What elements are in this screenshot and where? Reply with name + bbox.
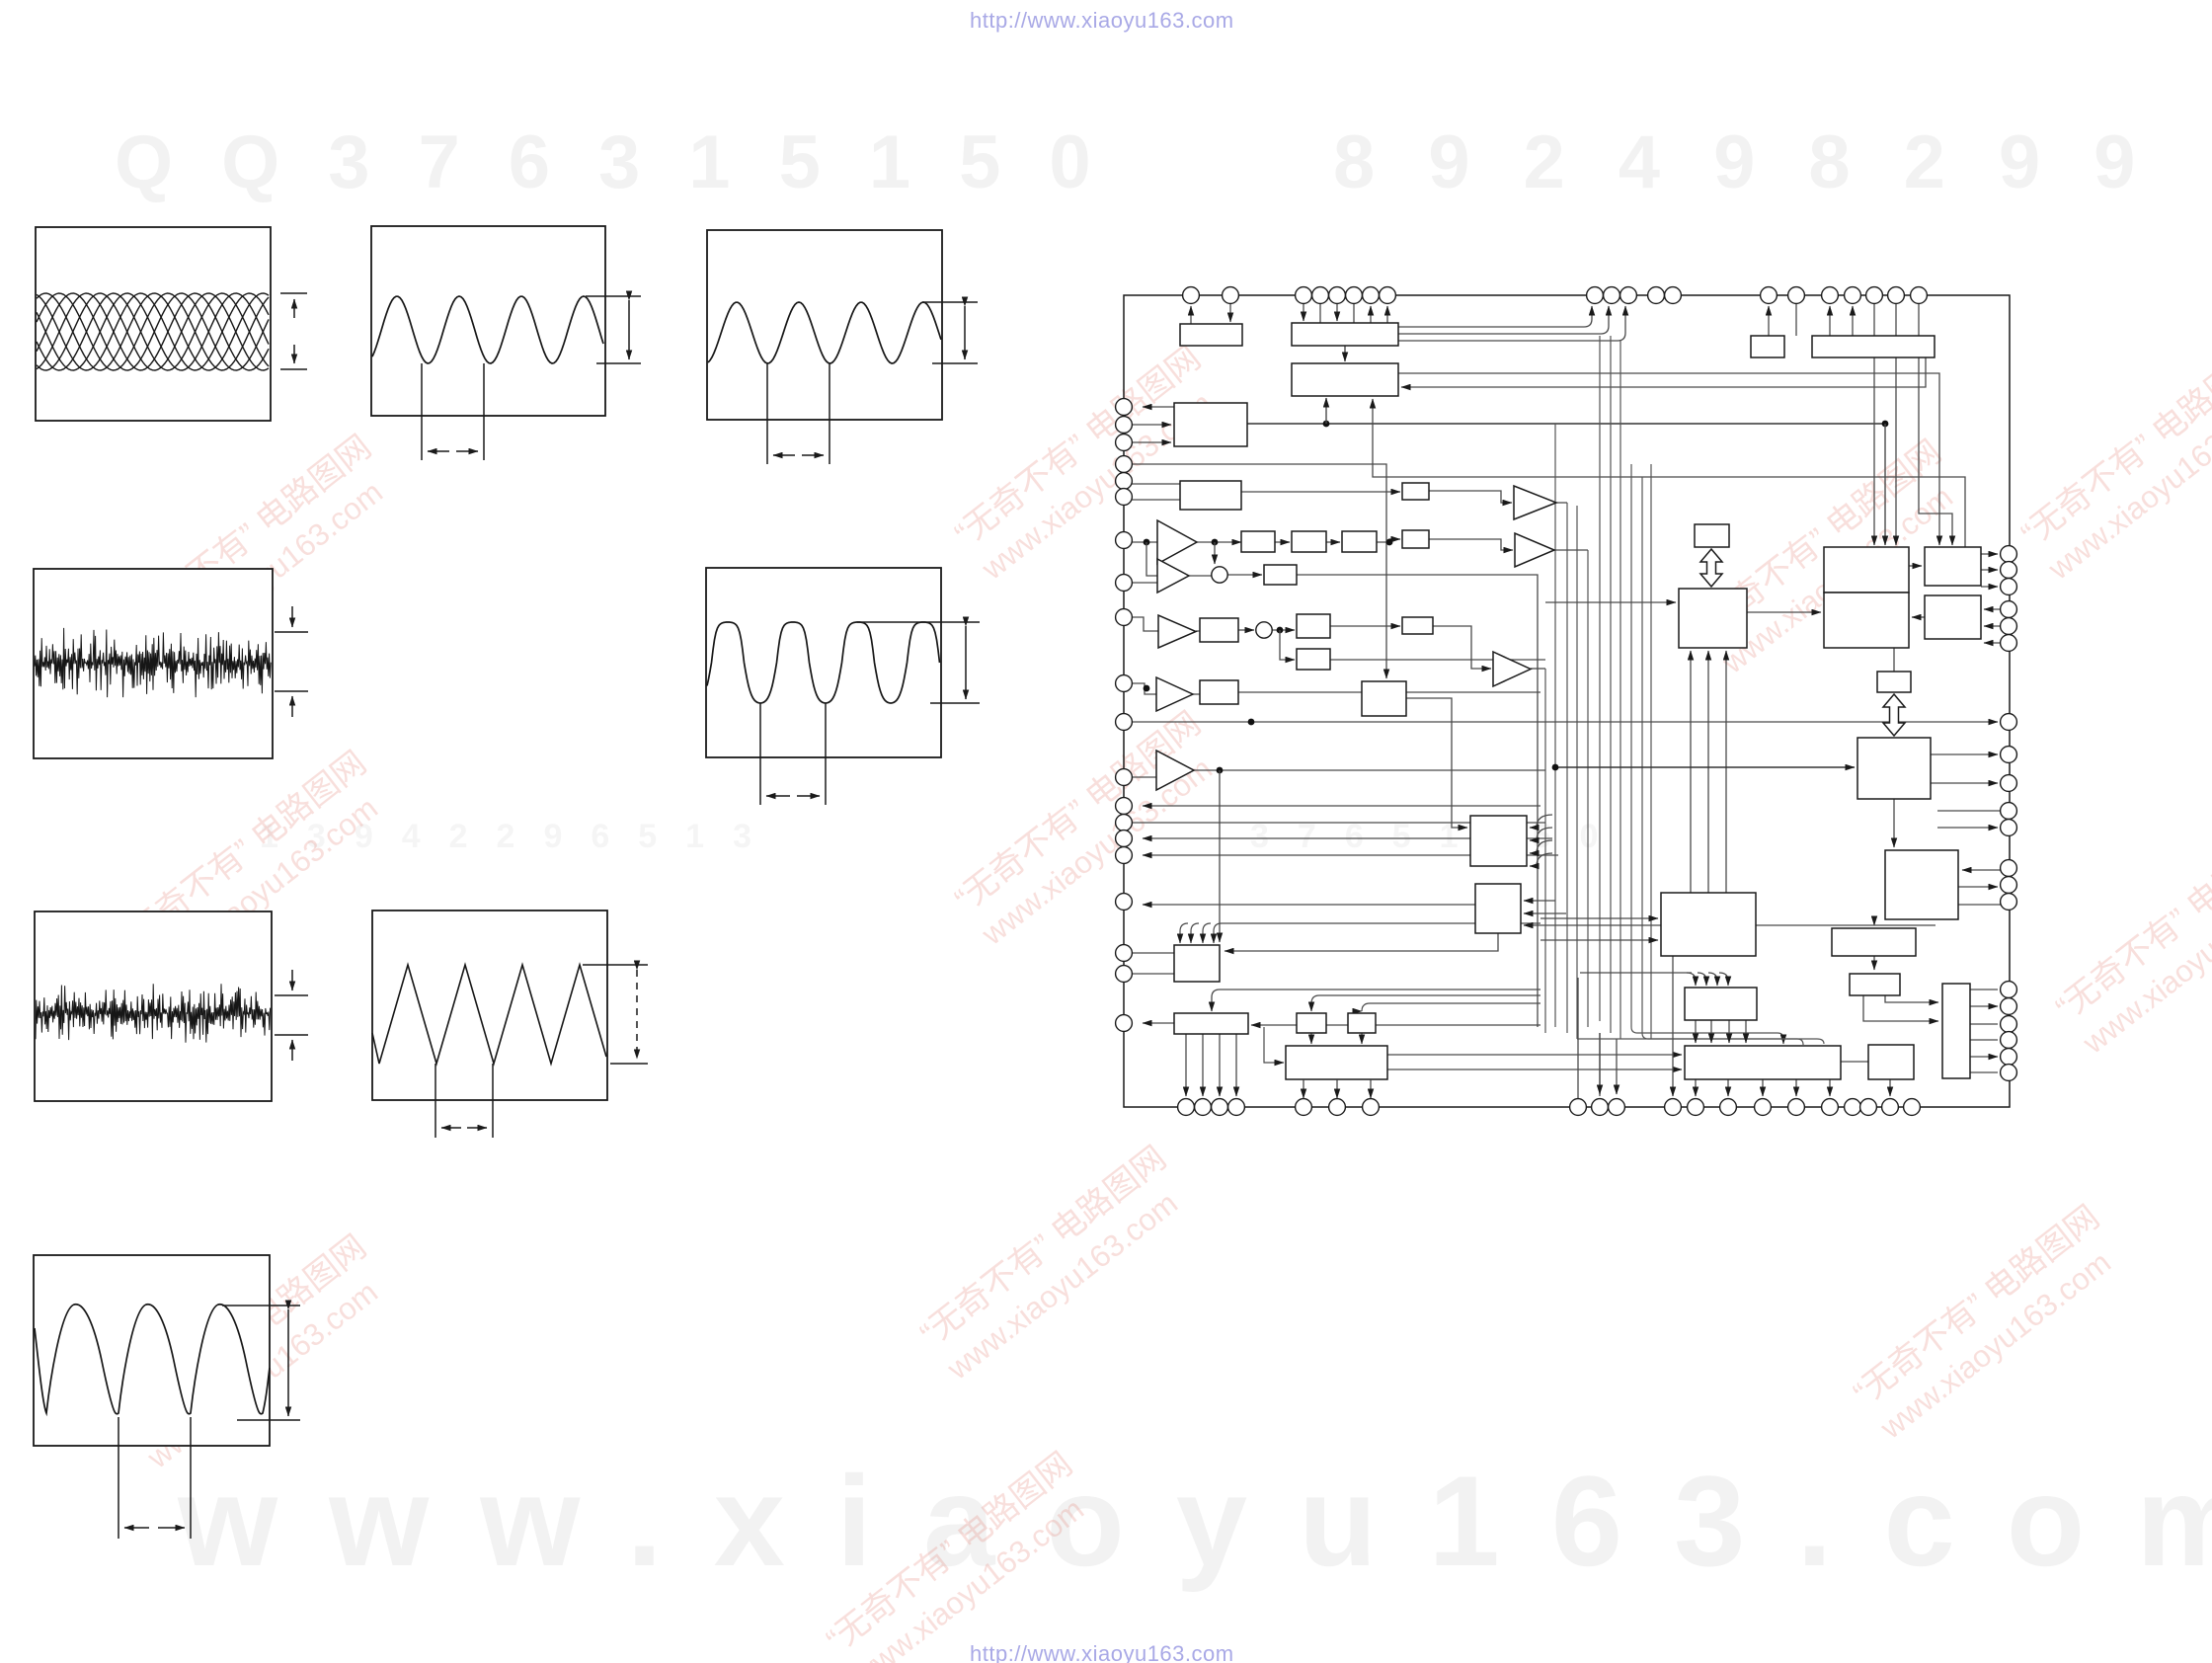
pin B9 bbox=[1592, 1099, 1609, 1116]
wire: WB double arrows to bottom pins bbox=[1303, 1080, 1304, 1098]
pin B4 bbox=[1228, 1099, 1245, 1116]
wire: amp trR1 output to bus bbox=[1556, 502, 1567, 504]
wire: u2 to amp trR2 bbox=[1429, 539, 1513, 550]
faint watermark digits row top-right bbox=[1333, 119, 2188, 205]
pin L12 bbox=[1116, 769, 1133, 786]
block b4 bbox=[1264, 565, 1297, 585]
wire: pin 625 to amp tri5 bbox=[1132, 617, 1158, 631]
pin B11 bbox=[1665, 1099, 1682, 1116]
block u4 bbox=[1695, 524, 1729, 547]
junction bbox=[1144, 539, 1150, 546]
wire: bus into M5a bbox=[1540, 917, 1658, 919]
amp tri4 bbox=[1157, 559, 1189, 593]
wire: BL2 right input bbox=[1251, 1024, 1540, 1026]
wire: EQ chain s2-s3 bbox=[1326, 541, 1340, 543]
summing node c2 bbox=[1256, 622, 1272, 638]
block H (PWM) bbox=[1475, 884, 1521, 933]
wire: vertical bus line bbox=[1599, 336, 1601, 1021]
wire: b7 output to bus bbox=[1330, 659, 1545, 661]
W2 amplitude dimension bbox=[586, 296, 641, 363]
pin L18 bbox=[1116, 945, 1133, 962]
wire: WB to LB links bbox=[1387, 1054, 1682, 1056]
wire: u3 to amp trR3 bbox=[1433, 626, 1491, 669]
wire: lines into H right edge bbox=[1524, 900, 1555, 902]
pin R2 bbox=[2001, 562, 2017, 579]
block M4a bbox=[1832, 928, 1916, 956]
wire: amp tri7 output bbox=[1194, 769, 1545, 771]
wire: vertical bus line bbox=[1587, 550, 1589, 1027]
wire: lines to pins 821/838 bbox=[1937, 810, 2001, 812]
wire: H bottom to BL1 right edge bbox=[1224, 933, 1498, 951]
W5 amplitude dimension bbox=[857, 622, 980, 703]
pin L14 bbox=[1116, 815, 1133, 831]
block M5a (timing gen) bbox=[1661, 893, 1756, 956]
block u5 bbox=[1877, 672, 1911, 692]
wire: b9 down to pin bbox=[1889, 1079, 1891, 1096]
wire: pin line into M3 bbox=[1962, 869, 2001, 871]
amp trR1 bbox=[1514, 486, 1556, 519]
wire: vertical bus line bbox=[1576, 506, 1578, 1039]
IC outer boundary bbox=[1124, 295, 2010, 1107]
amp tri1 bbox=[1157, 520, 1197, 564]
W7 amplitude dimension (dashed) bbox=[583, 965, 648, 1064]
wire: pin 692 to amp tri6 bbox=[1132, 683, 1156, 694]
wire: tb1 up to pin bbox=[1768, 306, 1770, 357]
wire: M3 down to M4a bbox=[1873, 919, 1875, 925]
pin R7 bbox=[2001, 714, 2017, 731]
block m3 (delay) bbox=[1362, 681, 1406, 716]
amp tri5 bbox=[1158, 615, 1196, 648]
wire: b8 output bbox=[1238, 691, 1540, 693]
wire: line y483 up into C bbox=[1373, 399, 1965, 547]
W3 amplitude dimension bbox=[922, 302, 978, 363]
W4 noise band bbox=[35, 628, 271, 697]
block bl3 bbox=[1297, 1013, 1326, 1033]
wire: B down into C bbox=[1344, 346, 1346, 361]
wire: pin 731 long line bbox=[1132, 721, 1998, 723]
pin L10 bbox=[1116, 675, 1133, 692]
wire: lines into left pins group bbox=[1143, 805, 1540, 807]
block tb2 (system control) bbox=[1812, 336, 1935, 357]
junction bbox=[1212, 539, 1219, 546]
pin R17 bbox=[2001, 1016, 2017, 1033]
summing node c1 bbox=[1212, 567, 1227, 583]
wire: m3 to G bbox=[1406, 698, 1467, 828]
pin R16 bbox=[2001, 998, 2017, 1015]
wire: pin 590 to amp input bbox=[1132, 582, 1157, 584]
junction bbox=[1386, 539, 1393, 546]
wire: vertical bus line bbox=[1544, 669, 1546, 1033]
wire: b4 output to bus bbox=[1297, 575, 1538, 1027]
W2 period dimension bbox=[422, 363, 484, 460]
wire: vertical bus line bbox=[1566, 503, 1568, 1033]
block u2 bbox=[1402, 530, 1429, 548]
wire: pin into block E lower bbox=[1132, 499, 1180, 501]
W7 period dimension bbox=[435, 1064, 493, 1138]
wire: pin to amp tri1 bbox=[1132, 541, 1157, 543]
W8 scalloped wave bbox=[35, 1305, 270, 1414]
wire: M5a bottom to pin 1694 bbox=[1672, 956, 1674, 1096]
wire: T2 down to u5 bbox=[1893, 648, 1895, 672]
W6 amplitude dimension bbox=[275, 970, 308, 1061]
pin L19 bbox=[1116, 966, 1133, 983]
pin T3 bbox=[1296, 287, 1312, 304]
pin T10 bbox=[1604, 287, 1620, 304]
pin B17 bbox=[1845, 1099, 1861, 1116]
pin T1 bbox=[1183, 287, 1200, 304]
wire: amp trR2 output to bus bbox=[1554, 549, 1588, 551]
pin B6 bbox=[1329, 1099, 1346, 1116]
pin L3 bbox=[1116, 435, 1133, 451]
scope panel W5 frame bbox=[706, 568, 941, 757]
pin T9 bbox=[1587, 287, 1604, 304]
pin L13 bbox=[1116, 798, 1133, 815]
block TN (I/O) bbox=[1942, 984, 1970, 1078]
pin R10 bbox=[2001, 803, 2017, 820]
block M3 (servo) bbox=[1885, 850, 1958, 919]
pin R1 bbox=[2001, 546, 2017, 563]
pin B8 bbox=[1570, 1099, 1587, 1116]
wire: M4a down to M4 bbox=[1873, 956, 1875, 970]
pin R18 bbox=[2001, 1032, 2017, 1049]
wire: E to u1 bbox=[1241, 491, 1400, 493]
block s3 (filter) bbox=[1342, 531, 1377, 552]
pin L4 bbox=[1116, 456, 1133, 473]
wire: left input pins into block D bbox=[1143, 406, 1174, 408]
pin R4 bbox=[2001, 601, 2017, 618]
wire: branch down into summing node c1 bbox=[1214, 542, 1216, 564]
pin T11 bbox=[1620, 287, 1637, 304]
wire: s3 to u2 bbox=[1377, 539, 1400, 542]
pin R5 bbox=[2001, 618, 2017, 635]
wire: vertical bus line bbox=[1554, 424, 1556, 1027]
wire: BL2 outputs to bottom pins bbox=[1185, 1034, 1187, 1096]
pin B13 bbox=[1720, 1099, 1737, 1116]
wire: vertical bus line bbox=[1619, 341, 1621, 1039]
wire: pin 1819 down bbox=[1795, 303, 1797, 336]
W8 amplitude dimension bbox=[222, 1306, 300, 1420]
wire: b6 to u3 bbox=[1330, 625, 1400, 627]
block bl4 bbox=[1348, 1013, 1376, 1033]
block s1 (AGC) bbox=[1241, 531, 1275, 552]
wire: bus into M1 bbox=[1545, 601, 1676, 603]
wire: A up to pin bbox=[1190, 306, 1192, 324]
watermark url bottom bbox=[970, 1641, 1234, 1663]
wire: EQ chain s1-s2 bbox=[1275, 541, 1290, 543]
pin R3 bbox=[2001, 579, 2017, 595]
wire: vertical bus line bbox=[1650, 464, 1652, 1039]
pin R12 bbox=[2001, 860, 2017, 877]
W3 sine wave bbox=[708, 302, 941, 363]
wire: R2 to T2 bbox=[1912, 616, 1925, 618]
wire: M3 outputs to pins bbox=[1958, 886, 1998, 888]
wire: M4 outputs to TN bbox=[1863, 995, 1938, 1021]
W1 amplitude dimension ticks and arrows bbox=[280, 293, 307, 369]
scope panel W7 frame bbox=[372, 911, 607, 1100]
pin L8 bbox=[1116, 575, 1133, 592]
wire: bl3 into WB bbox=[1310, 1033, 1312, 1044]
scope panel W1 frame bbox=[36, 227, 271, 421]
wire: bus bends into long box LB bbox=[1631, 1027, 1783, 1044]
watermark url top bbox=[970, 8, 1234, 34]
wire: feedback line into C bbox=[1401, 357, 1926, 387]
pin T17 bbox=[1845, 287, 1861, 304]
scope panel W4 frame bbox=[34, 569, 273, 758]
amp trR2 bbox=[1515, 533, 1554, 567]
wire: amp tri6 to b8 bbox=[1193, 693, 1200, 695]
block u3 bbox=[1402, 617, 1433, 634]
pin B7 bbox=[1363, 1099, 1380, 1116]
pin T13 bbox=[1665, 287, 1682, 304]
scope panel W8 frame bbox=[34, 1255, 270, 1446]
pin L20 bbox=[1116, 1015, 1133, 1032]
wire: vertical bus line bbox=[1630, 464, 1632, 1027]
pin B3 bbox=[1212, 1099, 1228, 1116]
wire: bus lines down into bl3 bl4 bbox=[1311, 995, 1540, 1011]
interface double arrow u4-M1 bbox=[1700, 549, 1722, 587]
wire: pins into R2 bbox=[1984, 608, 2001, 610]
pin B16 bbox=[1822, 1099, 1839, 1116]
block WB (audio DAC) bbox=[1286, 1046, 1387, 1079]
block B (register) bbox=[1292, 323, 1398, 346]
pin T15 bbox=[1788, 287, 1805, 304]
block E (bias) bbox=[1180, 481, 1241, 510]
wire: LB outputs to bottom pins bbox=[1695, 1079, 1697, 1096]
block C (decoder) bbox=[1292, 363, 1398, 396]
block BL1 bbox=[1174, 945, 1220, 982]
junction bbox=[1144, 685, 1150, 692]
block b8 bbox=[1200, 680, 1238, 704]
wire: amp trR3 output to bus bbox=[1531, 668, 1545, 670]
block b7 bbox=[1297, 649, 1330, 670]
wire: C right output to R1 via right column bbox=[1398, 373, 1939, 545]
pin B14 bbox=[1755, 1099, 1772, 1116]
wire: M2 outputs to pins bbox=[1931, 753, 1998, 755]
junction bbox=[1552, 764, 1559, 771]
pin L17 bbox=[1116, 894, 1133, 911]
wire: branch down to b7 bbox=[1280, 630, 1295, 660]
block b5 bbox=[1200, 618, 1238, 642]
pin R11 bbox=[2001, 820, 2017, 836]
pin B1 bbox=[1178, 1099, 1195, 1116]
pin L11 bbox=[1116, 714, 1133, 731]
wire: M1 bottom feeds bbox=[1690, 651, 1692, 893]
wire: verticals down into T1 bbox=[1873, 357, 1875, 545]
W8 period dimension bbox=[118, 1417, 191, 1539]
pin R14 bbox=[2001, 894, 2017, 911]
giant faint watermark bottom bbox=[178, 1447, 2212, 1595]
W5 period dimension bbox=[760, 703, 826, 805]
wire: pin to delay line bbox=[1132, 464, 1386, 678]
block LB (port) bbox=[1685, 1046, 1841, 1079]
pin L5 bbox=[1116, 473, 1133, 490]
wire: b5 to summing node c2 bbox=[1238, 629, 1254, 631]
block R2 (input buffer) bbox=[1925, 595, 1981, 639]
pin L16 bbox=[1116, 847, 1133, 864]
faint watermark digits row middle bbox=[260, 818, 780, 856]
pin R15 bbox=[2001, 982, 2017, 998]
junction bbox=[1277, 627, 1284, 634]
red diagonal watermarks bbox=[118, 427, 406, 677]
pin B18 bbox=[1860, 1099, 1877, 1116]
block b9 bbox=[1868, 1045, 1914, 1079]
pin T6 bbox=[1346, 287, 1363, 304]
wire: bl4 into WB bbox=[1361, 1033, 1363, 1044]
W2 sine wave bbox=[372, 296, 603, 363]
scope panel W2 frame bbox=[371, 226, 605, 416]
junction bbox=[1248, 719, 1255, 726]
wire: curl feed line into M5b bbox=[1580, 972, 1692, 974]
pin L2 bbox=[1116, 417, 1133, 434]
wire: R1 outputs to pins bbox=[1981, 553, 1998, 555]
junction bbox=[1882, 421, 1889, 428]
pin T2 bbox=[1223, 287, 1239, 304]
amp tri6 bbox=[1156, 677, 1193, 711]
wire: TN outputs to pins bbox=[1970, 989, 1998, 990]
wire: pins down through tb2 bbox=[1873, 303, 1875, 336]
pin B2 bbox=[1195, 1099, 1212, 1116]
wire: B output lines curving to top pins bbox=[1398, 306, 1592, 327]
wire: pin 787 to amp tri7 bbox=[1132, 776, 1156, 778]
wire: M1 to T2 bbox=[1747, 611, 1821, 613]
scope panel W3 frame bbox=[707, 230, 942, 420]
wire: c1 to b4 bbox=[1227, 574, 1262, 576]
wire: main line into M2 bbox=[1555, 766, 1855, 768]
wire: LB to b9 bbox=[1841, 1061, 1868, 1063]
junction bbox=[1323, 421, 1330, 428]
pin T19 bbox=[1888, 287, 1905, 304]
W6 noise band bbox=[36, 984, 271, 1042]
block M1 (RAM) bbox=[1679, 589, 1747, 648]
pin R9 bbox=[2001, 775, 2017, 792]
wire: pin into block E bbox=[1132, 483, 1180, 485]
pin B15 bbox=[1788, 1099, 1805, 1116]
pin R6 bbox=[2001, 635, 2017, 652]
pin T14 bbox=[1761, 287, 1777, 304]
block G (servo DSP) bbox=[1470, 816, 1527, 866]
wire: tb2 up to pins bbox=[1829, 306, 1831, 336]
pin B20 bbox=[1904, 1099, 1921, 1116]
wire: c2 to b6 bbox=[1272, 629, 1295, 631]
pin R20 bbox=[2001, 1065, 2017, 1081]
wire: top pin cluster into B bbox=[1303, 303, 1304, 321]
wire: WB left input bbox=[1264, 1027, 1284, 1063]
wire: branch down into block T1 bbox=[1884, 424, 1886, 545]
block T1 (digital filter) bbox=[1824, 547, 1909, 593]
W1 multi-phase sine bundle bbox=[37, 293, 269, 370]
W7 triangle wave bbox=[372, 965, 606, 1064]
pin T20 bbox=[1911, 287, 1928, 304]
block D (RF amp) bbox=[1174, 403, 1247, 446]
block M5b bbox=[1685, 988, 1757, 1020]
interface double arrow u5-M2 bbox=[1883, 694, 1905, 736]
wire: T1 to R1 bbox=[1909, 565, 1922, 567]
wire: BL2 out to pin 1036 bbox=[1143, 1022, 1174, 1024]
pin B12 bbox=[1688, 1099, 1704, 1116]
pin L15 bbox=[1116, 831, 1133, 847]
wire: u1 to amp trR1 bbox=[1429, 491, 1512, 503]
wire: pin 965 into BL1 bbox=[1132, 952, 1174, 954]
W4 amplitude dimension bbox=[275, 606, 308, 717]
pin T4 bbox=[1312, 287, 1329, 304]
wire: M5b outputs into LB bbox=[1695, 1020, 1697, 1043]
pin R19 bbox=[2001, 1049, 2017, 1066]
block u1 bbox=[1402, 483, 1429, 500]
pin B5 bbox=[1296, 1099, 1312, 1116]
wire: pin 986 into BL1 bbox=[1132, 973, 1174, 975]
block R1 (output buffer) bbox=[1925, 547, 1981, 586]
wire: branch down into BL1 bbox=[1219, 770, 1221, 942]
wire: feed line with curls into BL1 bbox=[1222, 922, 1540, 924]
wire: curls into G right edge bbox=[1530, 815, 1552, 828]
pin L7 bbox=[1116, 532, 1133, 549]
pin L9 bbox=[1116, 609, 1133, 626]
W3 period dimension bbox=[767, 363, 829, 464]
block M2 (processor) bbox=[1857, 738, 1931, 799]
block A (APC) bbox=[1180, 324, 1242, 346]
block M4 bbox=[1850, 974, 1900, 995]
amp tri7 bbox=[1156, 751, 1194, 790]
wire: pin down into A bbox=[1229, 303, 1231, 322]
faint watermark digits row top-left bbox=[115, 119, 1140, 205]
pin T12 bbox=[1648, 287, 1665, 304]
pin B10 bbox=[1609, 1099, 1625, 1116]
wire: branch up into decoder C bbox=[1325, 398, 1327, 424]
pin T18 bbox=[1866, 287, 1883, 304]
pin T7 bbox=[1363, 287, 1380, 304]
wire: bottom pins up into bus bbox=[1577, 978, 1579, 1099]
W5 flattened sine wave bbox=[707, 622, 940, 703]
wire: amp tri4 output into c1 bbox=[1189, 575, 1212, 577]
pin T16 bbox=[1822, 287, 1839, 304]
wire: M2 down into M3 bbox=[1893, 799, 1895, 847]
scope panel W6 frame bbox=[35, 911, 272, 1101]
pin B19 bbox=[1882, 1099, 1899, 1116]
wire: vertical bus line bbox=[1610, 336, 1612, 1033]
wire: amp tri5 to b5 bbox=[1196, 630, 1200, 632]
block tb1 bbox=[1751, 336, 1784, 357]
wire: long line into pin 913 bbox=[1143, 904, 1475, 906]
block BL2 (driver) bbox=[1174, 1013, 1248, 1034]
faint watermark digits row middle right bbox=[1250, 818, 1626, 856]
junction bbox=[1217, 767, 1224, 774]
wire: amp tri1 output to EQ chain bbox=[1197, 541, 1241, 543]
wire: BL2 top elbow input bbox=[1212, 990, 1540, 1011]
amp trR3 bbox=[1493, 652, 1531, 686]
block s2 (EQ) bbox=[1292, 531, 1326, 552]
block T2 (demodulator) bbox=[1824, 593, 1909, 648]
wire: main RF bus from block D to right bbox=[1247, 423, 1885, 425]
wire: branch down to amp tri4 bbox=[1146, 542, 1157, 576]
pin L1 bbox=[1116, 399, 1133, 416]
pin T5 bbox=[1329, 287, 1346, 304]
block b6 bbox=[1297, 614, 1330, 638]
pin L6 bbox=[1116, 489, 1133, 506]
pin R13 bbox=[2001, 877, 2017, 894]
pin T8 bbox=[1380, 287, 1396, 304]
wire: vertical bus line bbox=[1641, 477, 1643, 1033]
pin R8 bbox=[2001, 747, 2017, 763]
